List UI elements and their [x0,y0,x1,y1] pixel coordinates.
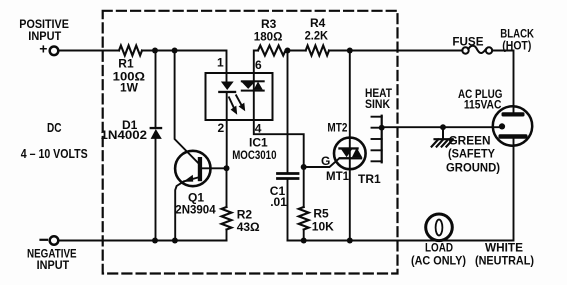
svg-text:(SAFETY: (SAFETY [448,147,495,161]
svg-text:LOAD: LOAD [425,241,453,255]
svg-text:2N3904: 2N3904 [175,203,216,217]
svg-text:10K: 10K [312,220,334,234]
svg-text:180Ω: 180Ω [254,30,283,44]
svg-text:FUSE: FUSE [452,34,483,48]
svg-text:4: 4 [255,122,262,136]
svg-text:2.2K: 2.2K [305,29,329,43]
svg-text:(HOT): (HOT) [502,38,531,52]
svg-text:TR1: TR1 [358,172,381,186]
svg-text:MT1: MT1 [326,169,349,183]
svg-text:1W: 1W [120,81,139,95]
svg-text:6: 6 [255,58,262,72]
svg-text:1N4002: 1N4002 [101,128,148,142]
svg-text:GROUND): GROUND) [446,161,500,175]
svg-text:DC: DC [47,120,62,135]
svg-text:43Ω: 43Ω [237,220,260,234]
svg-text:115VAC: 115VAC [464,98,502,112]
svg-text:2: 2 [218,121,225,135]
svg-text:GREEN: GREEN [449,134,491,148]
svg-text:G: G [321,154,330,168]
svg-text:.01: .01 [270,195,287,209]
svg-text:R1: R1 [118,57,134,71]
svg-text:MT2: MT2 [327,120,347,134]
svg-text:+: + [39,41,47,57]
svg-text:1: 1 [217,56,224,70]
svg-text:R5: R5 [313,206,329,220]
svg-text:(AC ONLY): (AC ONLY) [411,254,466,268]
svg-text:MOC3010: MOC3010 [232,148,277,162]
svg-text:SINK: SINK [365,97,390,111]
svg-text:4 – 10 VOLTS: 4 – 10 VOLTS [21,146,88,161]
svg-text:INPUT: INPUT [37,258,70,272]
svg-text:WHITE: WHITE [485,241,523,255]
svg-text:(NEUTRAL): (NEUTRAL) [475,254,534,268]
